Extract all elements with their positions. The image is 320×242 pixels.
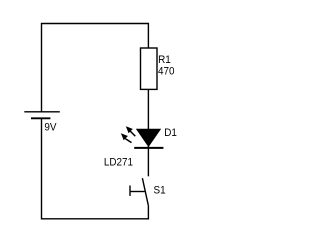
switch S1 actuator bar [129, 186, 131, 196]
svg-text:R1: R1 [158, 54, 171, 66]
svg-text:LD271: LD271 [104, 157, 133, 169]
wire resistor to LED [147, 89, 149, 129]
svg-text:S1: S1 [154, 185, 166, 197]
battery B1 top plate (long, positive) [24, 111, 60, 113]
LED D1 triangle (anode) [137, 129, 161, 146]
battery B1 bottom plate (short, thick, negative) [31, 117, 50, 119]
LED D1 cathode bar [134, 147, 163, 149]
wire top loop: battery plus up, across top rail, down to resistor [42, 24, 149, 112]
LED emission arrow lower [121, 133, 132, 142]
svg-text:470: 470 [158, 66, 175, 78]
svg-text:9V: 9V [44, 122, 56, 134]
resistor R1 body [141, 48, 158, 89]
switch S1 moving contact (slanted) [142, 178, 148, 205]
wire LED cathode down to switch top terminal [147, 146, 149, 176]
svg-text:D1: D1 [164, 128, 177, 140]
wire battery minus down, across bottom rail, up to switch [42, 119, 149, 219]
LED emission arrow upper [126, 126, 136, 136]
switch S1 actuator rod [130, 191, 145, 193]
